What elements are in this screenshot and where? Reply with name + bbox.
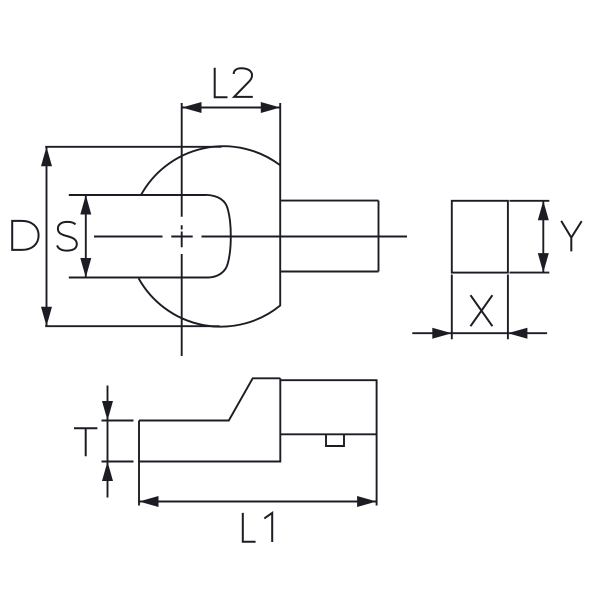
jaw bottom line (69, 277, 209, 279)
dimension S line (85, 195, 87, 278)
Y extension top (510, 200, 550, 202)
dimension D arrows (41, 147, 52, 326)
dimension T line (107, 386, 109, 498)
dimension L2 line (182, 107, 280, 109)
label X (471, 295, 493, 326)
label Y (561, 221, 582, 252)
dimension X line (412, 332, 547, 334)
T extension top (102, 420, 134, 422)
dimension Y arrows (538, 201, 549, 273)
dimension L1 arrows (139, 496, 377, 507)
dimension X arrows (432, 328, 527, 339)
dimension D line (46, 147, 48, 326)
L1 extension right (376, 434, 378, 505)
dimension L2 arrows (182, 102, 280, 113)
L2 extension right (279, 103, 281, 166)
jaw top line (69, 194, 206, 196)
shank right edge (378, 201, 380, 272)
shank bottom line (280, 271, 378, 273)
X extension left (451, 275, 453, 340)
label L1 (243, 513, 272, 542)
Y extension bottom (510, 272, 550, 274)
D extension top (45, 146, 221, 148)
X extension right (507, 275, 509, 340)
dimension S arrows (80, 195, 91, 278)
square end view (452, 201, 508, 273)
label S (57, 222, 77, 251)
T extension bottom (102, 461, 134, 463)
side view outline (139, 378, 377, 461)
label T (74, 428, 97, 456)
side view notch (326, 434, 344, 446)
label D (12, 221, 38, 250)
shank top line (280, 200, 378, 202)
vertical centerline (181, 103, 183, 356)
label L2 (215, 68, 253, 97)
horizontal centerline (94, 236, 407, 238)
dimension Y line (542, 201, 544, 273)
dimension L1 line (139, 501, 377, 503)
dimension T arrows (102, 401, 113, 481)
jaw slot end (206, 195, 231, 278)
L1 extension left (138, 462, 140, 506)
head outline (139, 146, 281, 326)
D extension bottom (45, 325, 219, 327)
